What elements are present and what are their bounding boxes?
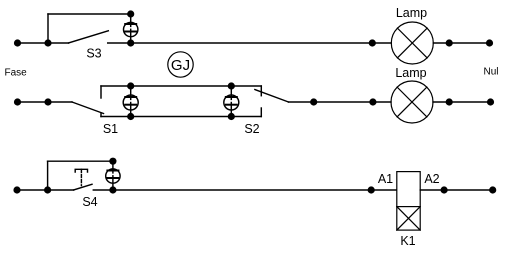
wire glow lamp E2 bottom lead [130,105,132,117]
glow lamp E3 in S2 [224,95,239,110]
node row1 left terminal [14,39,21,46]
wire glow lamp E4 top lead [112,161,114,170]
wire row2 right segment [433,101,491,103]
junction row1 below glow lamp [127,39,134,46]
lamp H1 [391,22,433,64]
glow lamp E2 in S1 [123,95,138,110]
svg-text:K1: K1 [400,234,415,248]
junction row2 after S2 [310,98,317,105]
wire row3 left segment [17,189,74,191]
node row3 left terminal [13,186,20,193]
junction row3 after relay [441,186,448,193]
node row3 right terminal [489,186,496,193]
wire row3 middle segment [93,189,397,191]
node row2 left terminal [14,98,21,105]
junction row2 before lamp [369,98,376,105]
node row2 right terminal [487,98,494,105]
junction row3 at S4 branch [44,186,51,193]
svg-text:Nul: Nul [484,67,499,78]
junction row1 after lamp [446,39,453,46]
wire traveller top rail [101,85,261,87]
wire glow lamp E1 top lead [130,14,132,24]
wire S1 lower contact stub [100,113,102,117]
svg-text:Fase: Fase [5,68,28,79]
svg-text:A1: A1 [378,172,393,186]
junction row3 below glow lamp [109,186,116,193]
wire row2 middle segment [289,101,392,103]
junction top of glow lamp E3 [228,82,235,89]
junction bottom of glow lamp E3 [228,113,235,120]
glow lamp E4 in S4 [106,169,120,183]
svg-text:S1: S1 [103,122,118,136]
relay coil K1 [397,172,420,231]
wire glow lamp E1 bottom lead [130,32,132,44]
wire S2 lower contact stub [260,108,262,117]
junction row1 at S3 branch [44,39,51,46]
wire row1 middle segment [108,42,392,44]
svg-text:GJ: GJ [171,57,190,74]
wire row3 right segment [420,189,493,191]
svg-text:A2: A2 [424,172,439,186]
wire traveller bottom rail [101,116,261,118]
wire row1 right segment [433,42,489,44]
junction row3 before relay [368,186,375,193]
svg-text:S4: S4 [82,195,97,209]
wire S3 branch vertical [47,14,49,43]
junction top of glow lamp E4 [109,158,116,165]
wire S4 branch top rail [48,160,113,162]
wire S3 branch top rail [48,13,131,15]
junction row1 before lamp [369,39,376,46]
glow lamp E1 in S3 [124,22,138,36]
wire row2 left segment [18,101,73,103]
wire glow lamp E2 top lead [130,86,132,97]
junction top of S3 glow lamp [127,10,134,17]
meter GJ [168,52,193,77]
svg-text:S3: S3 [86,47,101,61]
switch S3 blade [69,31,109,43]
wire glow lamp E3 top lead [230,86,232,97]
switch S4 blade [74,184,92,190]
junction top of glow lamp E2 [127,82,134,89]
wire glow lamp E4 bottom lead [112,178,114,190]
switch S4 push-button actuator [75,169,87,185]
svg-text:S2: S2 [244,122,259,136]
svg-text:Lamp: Lamp [395,66,426,80]
junction bottom of glow lamp E2 [127,113,134,120]
lamp H2 [391,81,433,123]
switch S2 blade [255,90,289,103]
wire S2 upper contact stub [260,86,262,96]
wire row1 left segment [18,42,69,44]
junction row2 left [44,98,51,105]
wire glow lamp E3 bottom lead [230,105,232,117]
wire S1 upper contact stub [100,86,102,98]
switch S1 blade [72,102,104,114]
svg-text:Lamp: Lamp [396,6,427,20]
junction row2 after lamp [446,98,453,105]
wire S4 branch vertical [47,161,49,190]
node row1 right terminal [486,39,493,46]
